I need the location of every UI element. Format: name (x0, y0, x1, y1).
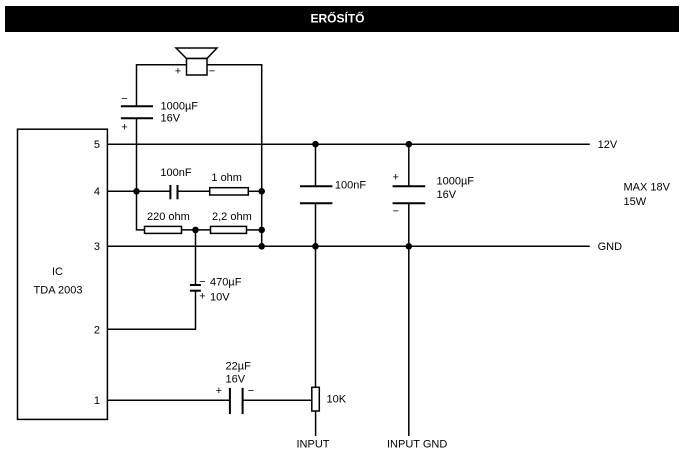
capacitor C3 470µF 10V (190, 230, 242, 329)
wire GND rail pin3 (108, 245, 590, 247)
wire left vertical mid (C1 to pin4) (136, 118, 138, 191)
svg-text:+: + (199, 290, 205, 302)
title banner ERŐSÍTŐ (5, 6, 679, 32)
potentiometer VR1 10K (312, 387, 347, 411)
wire C4 down to pot (315, 203, 317, 387)
svg-text:−: − (199, 276, 205, 288)
svg-text:12V: 12V (598, 139, 618, 151)
svg-text:−: − (121, 93, 127, 105)
svg-text:10V: 10V (210, 291, 230, 303)
wire speaker left (137, 64, 187, 66)
speaker LS1 (175, 48, 217, 77)
svg-text:IC: IC (52, 266, 63, 278)
svg-text:220 ohm: 220 ohm (147, 211, 190, 223)
svg-text:ERŐSÍTŐ: ERŐSÍTŐ (310, 11, 364, 26)
svg-text:1 ohm: 1 ohm (211, 172, 242, 184)
svg-text:+: + (216, 385, 222, 397)
wire C5 down to INPUT GND (408, 203, 410, 436)
node junction R3/right vertical (258, 227, 265, 234)
wire drop pin4 to 220ohm row (137, 191, 145, 230)
wire between R2 and R3 (182, 229, 211, 231)
svg-text:−: − (392, 206, 398, 218)
svg-text:1000µF: 1000µF (161, 101, 199, 113)
svg-text:100nF: 100nF (335, 180, 366, 192)
svg-text:INPUT GND: INPUT GND (387, 439, 447, 451)
wire pin1 right (C6 to pot wiper) (243, 399, 312, 401)
wire R3 to right vertical (247, 229, 262, 231)
wire pin2 (108, 328, 197, 330)
svg-text:−: − (209, 65, 215, 77)
svg-text:+: + (121, 122, 127, 134)
resistor R3 2,2 ohm (211, 211, 252, 234)
svg-text:1: 1 (94, 395, 100, 407)
svg-text:GND: GND (598, 241, 623, 253)
svg-text:MAX 18V: MAX 18V (624, 182, 671, 194)
svg-text:+: + (392, 171, 398, 183)
node junction pin4/right vertical (258, 188, 265, 195)
capacitor C5 1000µF 16V (supply) (392, 144, 474, 217)
node junction GND/right vertical (258, 243, 265, 250)
wire pot bottom to INPUT (315, 411, 317, 436)
resistor R1 1 ohm (210, 172, 249, 195)
wire left vertical top (136, 64, 138, 106)
svg-text:16V: 16V (226, 374, 246, 386)
svg-text:100nF: 100nF (160, 167, 191, 179)
svg-text:4: 4 (94, 186, 100, 198)
node junction 12V/C4 (312, 141, 319, 148)
node junction R2/R3/C3 (192, 227, 199, 234)
node junction GND/C5 (406, 243, 413, 250)
resistor R2 220 ohm (145, 211, 190, 234)
svg-text:INPUT: INPUT (297, 439, 330, 451)
wire 12V rail pin5 (108, 143, 590, 145)
svg-text:−: − (248, 385, 254, 397)
svg-text:2: 2 (94, 324, 100, 336)
svg-text:3: 3 (94, 241, 100, 253)
capacitor C2 100nF (160, 167, 191, 199)
svg-text:+: + (175, 65, 181, 77)
op-amp IC U1 TDA 2003 box (18, 129, 108, 419)
capacitor C6 22µF 16V (216, 360, 255, 414)
node junction GND/C4 (312, 243, 319, 250)
svg-text:10K: 10K (327, 394, 347, 406)
wire right vertical (speaker to GND) (261, 64, 263, 246)
svg-text:22µF: 22µF (226, 360, 252, 372)
svg-text:470µF: 470µF (210, 277, 242, 289)
node junction 12V/C5 (406, 141, 413, 148)
wire speaker right (207, 64, 262, 66)
svg-text:1000µF: 1000µF (437, 176, 475, 188)
wire pin1 left (108, 399, 230, 401)
svg-text:2,2 ohm: 2,2 ohm (212, 211, 252, 223)
svg-text:15W: 15W (624, 196, 647, 208)
note MAX 18V 15W (624, 182, 671, 208)
svg-text:16V: 16V (161, 113, 181, 125)
svg-text:16V: 16V (437, 189, 457, 201)
svg-text:5: 5 (94, 139, 100, 151)
capacitor C1 1000µF 16V (121, 93, 198, 134)
node junction pin4/C1 (133, 188, 140, 195)
wire pin4 segment right (248, 190, 261, 192)
svg-text:TDA 2003: TDA 2003 (34, 285, 83, 297)
wire pin4 segment mid (178, 190, 210, 192)
capacitor C4 100nF (supply) (300, 144, 366, 203)
wire pin4 segment left (108, 190, 171, 192)
